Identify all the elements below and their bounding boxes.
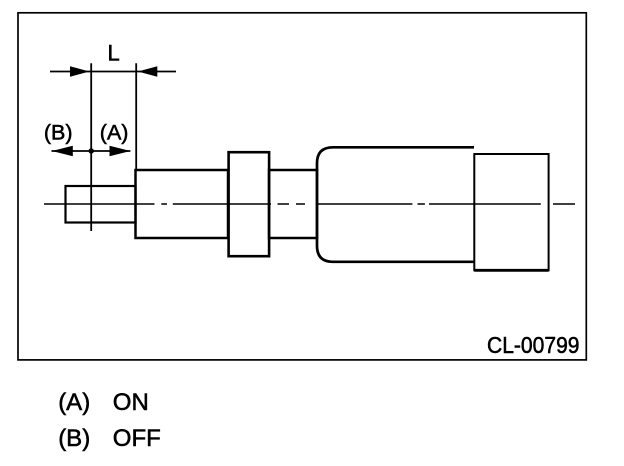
dimension arrowhead pointing right: [70, 66, 89, 77]
svg-text:(A): (A): [58, 389, 90, 416]
connector block: [474, 154, 548, 270]
dimension arrowhead pointing left: [138, 66, 157, 77]
hex nut flange: [229, 152, 270, 256]
shaft front section: [136, 170, 229, 238]
extension line left (OFF position): [90, 63, 92, 231]
plunger tip: [66, 186, 136, 223]
frame border: [18, 13, 586, 360]
junction dot: [89, 148, 94, 153]
svg-text:L: L: [107, 40, 119, 65]
extension line right (ON position / shaft face): [135, 63, 137, 171]
switch body (rounded front): [317, 147, 474, 261]
shaft rear section: [269, 170, 317, 238]
svg-text:OFF: OFF: [113, 425, 161, 452]
travel arrowhead pointing left: [52, 146, 73, 157]
svg-text:ON: ON: [113, 389, 149, 416]
travel arrow line: [52, 150, 131, 152]
svg-text:CL-00799: CL-00799: [487, 332, 580, 358]
connector bottom edge (heavier): [474, 269, 548, 272]
dimension line L: [50, 71, 176, 73]
centerline (dash-dot axis): [44, 203, 575, 205]
travel arrowhead pointing right: [110, 146, 131, 157]
svg-text:(B): (B): [44, 121, 73, 145]
svg-text:(A): (A): [100, 121, 129, 145]
svg-text:(B): (B): [58, 425, 90, 452]
